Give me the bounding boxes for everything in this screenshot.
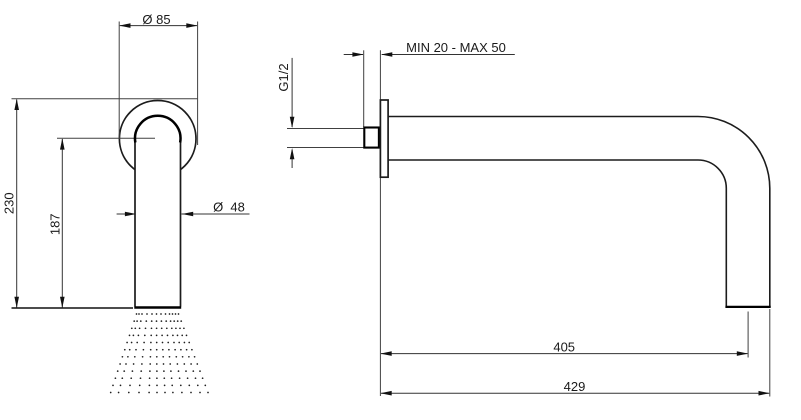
spout outlet end cap (front view, bold) — [134, 306, 181, 308]
tube bend, outer contour arc (front view, bold) — [135, 116, 180, 143]
svg-text:MIN 20 - MAX 50: MIN 20 - MAX 50 — [406, 40, 506, 55]
dimension Ø48 (outside arrows) — [117, 212, 250, 217]
svg-text:Ø 48: Ø 48 — [213, 199, 245, 214]
extension line, bottom shared by 230/187 dims — [12, 307, 134, 309]
wall flange (side view) — [380, 100, 388, 177]
dimension line 230 (vertical) — [14, 99, 19, 308]
wall surface line — [379, 50, 381, 396]
svg-text:429: 429 — [564, 379, 586, 394]
extension line, spout axis (right end of 405 dim) — [747, 312, 749, 358]
water spray dot fan — [110, 313, 209, 393]
spout tube side edges (front view) — [134, 139, 136, 307]
spout tube outline (side view) — [388, 117, 770, 307]
spout tube body fill (front view) — [135, 138, 181, 307]
dimension line 187 (vertical) — [60, 138, 65, 308]
wall flange disc (front view, Ø85) — [119, 101, 196, 178]
extension line, outer edge (right end of 429 dim) — [769, 309, 771, 397]
dimension MIN 20 - MAX 50 (outside arrows) — [344, 52, 515, 57]
extension lines of Ø85 dim — [118, 22, 120, 139]
dimension line 429 — [380, 391, 769, 396]
connection nut (side view, bold) — [364, 128, 379, 148]
svg-text:G1/2: G1/2 — [276, 63, 291, 91]
svg-text:405: 405 — [553, 339, 575, 354]
svg-text:Ø 85: Ø 85 — [142, 12, 170, 27]
extension line, left of MIN/MAX dim — [363, 50, 365, 127]
dimension G1/2 (vertical, outside arrows) — [290, 58, 295, 168]
svg-text:187: 187 — [48, 213, 63, 235]
dimension line 405 — [380, 351, 748, 356]
extension line, top of 187 dim (to tube axis) — [57, 137, 155, 139]
spout outlet end cap (side view, bold) — [725, 306, 770, 308]
extension line, top of 230 dim — [12, 98, 198, 100]
G1/2 threaded inlet stub (top and bottom edge lines) — [287, 128, 364, 130]
svg-text:230: 230 — [1, 192, 16, 214]
dimension line Ø85 — [119, 23, 197, 28]
